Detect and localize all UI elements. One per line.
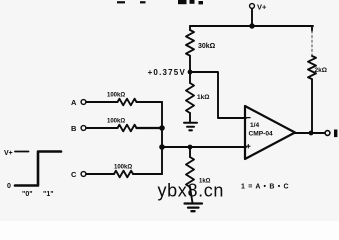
wire summing line to non-inverting input	[162, 146, 246, 148]
resistor R1 30k	[186, 30, 194, 56]
wire left drop to R1	[189, 26, 191, 30]
ground G2	[185, 202, 203, 204]
node +0.375V	[188, 70, 193, 75]
wire node to R2	[189, 72, 191, 83]
wire B to bus	[137, 127, 163, 129]
wire tap to R6	[189, 147, 191, 157]
wire A to bus	[137, 101, 163, 103]
svg-text:A: A	[71, 98, 77, 107]
resistor R7 2k	[308, 56, 316, 79]
node at V+ junction	[249, 23, 254, 28]
node bus-B	[159, 125, 165, 131]
wire R6 to ground	[190, 187, 193, 203]
V+ level dash	[15, 151, 29, 153]
node R6 tap	[188, 145, 193, 150]
wire R1 to node	[189, 56, 191, 72]
svg-text:V+: V+	[257, 3, 267, 12]
wire input bus	[161, 102, 163, 174]
svg-text:ybx8.cn: ybx8.cn	[158, 181, 225, 201]
svg-text:CMP-04: CMP-04	[249, 131, 274, 138]
node output pull-up	[309, 131, 314, 136]
svg-text:1kΩ: 1kΩ	[197, 94, 209, 101]
top caption fragments (cut-off text)	[117, 0, 203, 4]
wire C to bus	[133, 173, 162, 175]
svg-text:2kΩ: 2kΩ	[315, 67, 327, 74]
wire C lead	[86, 173, 114, 175]
wire V+ drop	[251, 9, 253, 27]
pin plus	[247, 145, 250, 149]
terminal V+	[250, 4, 255, 9]
resistor R5 100k	[114, 171, 133, 178]
svg-text:+0.375V: +0.375V	[148, 68, 186, 77]
input waveform legend	[4, 150, 61, 198]
resistor R4 100k	[118, 125, 137, 132]
resistor R3 100k	[118, 99, 137, 106]
svg-text:V+: V+	[4, 150, 13, 157]
svg-text:1 = A • B • C: 1 = A • B • C	[241, 184, 289, 191]
wire R7 to output	[311, 79, 312, 133]
op-amp U1 1/4 CMP-04	[245, 106, 295, 159]
svg-text:"0": "0"	[22, 191, 33, 198]
node bus-out	[159, 144, 165, 150]
svg-text:100kΩ: 100kΩ	[114, 165, 132, 171]
svg-text:"1": "1"	[43, 191, 54, 198]
ground G1	[184, 122, 197, 124]
wire top rail	[190, 25, 313, 27]
svg-text:100kΩ: 100kΩ	[107, 93, 125, 99]
svg-text:30kΩ: 30kΩ	[198, 43, 216, 50]
wire reference to inverting input	[190, 72, 246, 118]
wire A lead	[86, 101, 118, 103]
svg-text:B: B	[71, 124, 77, 133]
resistor R2 1k	[186, 83, 194, 113]
svg-text:100kΩ: 100kΩ	[107, 119, 125, 125]
wire right drop to R7	[311, 26, 313, 31]
waveform step	[15, 152, 61, 186]
output label fragment (cut)	[334, 130, 337, 138]
wire B lead	[86, 127, 118, 129]
wire R2 to ground	[189, 113, 191, 123]
svg-text:0: 0	[7, 183, 11, 190]
terminal output	[325, 131, 330, 136]
wire output	[295, 132, 325, 134]
pin minus	[247, 117, 250, 119]
svg-text:1/4: 1/4	[250, 122, 259, 129]
svg-text:C: C	[71, 170, 77, 179]
resistor R6 1k	[186, 157, 194, 187]
